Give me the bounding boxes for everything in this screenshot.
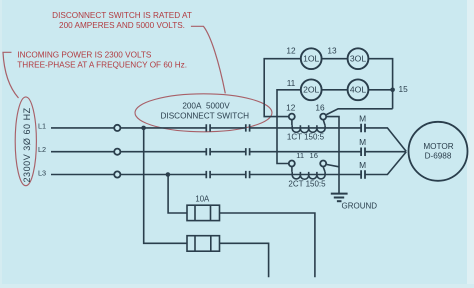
wire from fuse F1 to control tail <box>220 213 315 277</box>
overload relay coil 2OL <box>301 79 322 100</box>
node 15 junction dot <box>390 88 395 93</box>
disconnect contact circle L2 <box>114 149 120 155</box>
svg-text:12: 12 <box>286 46 296 56</box>
disconnect blade bars L2 <box>206 148 249 155</box>
junction dot L3 to fuse feed <box>166 172 171 177</box>
fuse F1 10A <box>187 205 220 220</box>
svg-text:THREE-PHASE AT A FREQUENCY OF: THREE-PHASE AT A FREQUENCY OF 60 Hz. <box>17 60 187 69</box>
disconnect switch label <box>161 102 250 121</box>
leader line from note 2 to source ellipse <box>3 52 19 98</box>
svg-text:3OL: 3OL <box>350 54 366 64</box>
contact M L1 <box>359 113 366 132</box>
disconnect contact circle L1 <box>114 125 120 131</box>
svg-text:M: M <box>359 137 366 147</box>
svg-text:15: 15 <box>399 84 409 94</box>
svg-text:1CT 150:5: 1CT 150:5 <box>287 132 325 141</box>
svg-text:2300V 3Ø 60 HZ: 2300V 3Ø 60 HZ <box>22 107 32 182</box>
svg-text:MOTOR: MOTOR <box>423 142 453 151</box>
svg-text:DISCONNECT SWITCH: DISCONNECT SWITCH <box>161 111 250 120</box>
contact M L2 <box>359 137 366 156</box>
wire from node 15 to 1CT terminal 16 <box>326 109 392 115</box>
fuse F2 <box>187 236 220 252</box>
wire L1 fuse feed <box>144 128 187 243</box>
svg-text:11: 11 <box>296 151 304 160</box>
motor D-6988 <box>409 122 468 181</box>
ground <box>331 194 348 202</box>
svg-text:12: 12 <box>286 102 296 112</box>
svg-text:M: M <box>359 113 366 123</box>
annotation note 1: disconnect switch rating <box>52 11 192 30</box>
svg-text:2OL: 2OL <box>303 85 319 95</box>
disconnect switch ellipse <box>135 94 272 132</box>
svg-text:GROUND: GROUND <box>342 202 378 211</box>
wire 2CT-16 to ground bus <box>327 165 339 167</box>
svg-text:DISCONNECT SWITCH IS RATED AT: DISCONNECT SWITCH IS RATED AT <box>52 11 192 20</box>
disconnect blade bars L1 <box>206 124 249 131</box>
annotation note 2: incoming power <box>17 51 187 70</box>
svg-text:L1: L1 <box>38 121 46 130</box>
wire L3 fuse feed <box>168 175 187 214</box>
svg-text:L3: L3 <box>38 169 46 178</box>
current transformer 2CT <box>289 161 326 180</box>
svg-text:M: M <box>359 160 366 170</box>
wire from fuse F2 to control tail <box>220 243 269 277</box>
overload relay circuit wires row 1 <box>264 59 392 117</box>
disconnect contact circle L3 <box>114 171 120 177</box>
wire L3 phase line <box>51 152 406 175</box>
svg-text:13: 13 <box>327 46 337 56</box>
source ellipse 2300V 3-phase <box>15 97 36 186</box>
overload relay coil 1OL <box>301 48 322 69</box>
junction dot L1 to fuse feed <box>141 126 146 131</box>
svg-text:16: 16 <box>315 102 325 112</box>
overload relay coil 3OL <box>348 48 369 69</box>
disconnect blade bars L3 <box>206 171 249 178</box>
svg-text:10A: 10A <box>195 195 210 204</box>
svg-text:16: 16 <box>309 151 317 160</box>
svg-text:INCOMING POWER IS 2300 VOLTS: INCOMING POWER IS 2300 VOLTS <box>17 51 152 60</box>
svg-text:200A 5000V: 200A 5000V <box>182 102 230 111</box>
wire L1 phase line <box>51 128 406 151</box>
overload relay circuit wires row 2 <box>277 90 393 164</box>
svg-text:2CT 150:5: 2CT 150:5 <box>288 179 326 188</box>
svg-text:L2: L2 <box>38 145 46 154</box>
svg-text:4OL: 4OL <box>350 85 366 95</box>
overload relay coil 4OL <box>348 79 369 100</box>
current transformer 1CT <box>289 114 326 133</box>
contact M L3 <box>359 160 366 179</box>
leader line from note 1 to disconnect ellipse <box>191 26 225 93</box>
svg-text:11: 11 <box>287 78 296 88</box>
wire 1CT-16 to ground bus <box>327 117 339 194</box>
svg-text:1OL: 1OL <box>303 54 319 64</box>
svg-text:200 AMPERES AND 5000 VOLTS.: 200 AMPERES AND 5000 VOLTS. <box>59 21 185 30</box>
svg-text:D-6988: D-6988 <box>425 151 452 160</box>
wire L2 phase line <box>51 151 406 153</box>
